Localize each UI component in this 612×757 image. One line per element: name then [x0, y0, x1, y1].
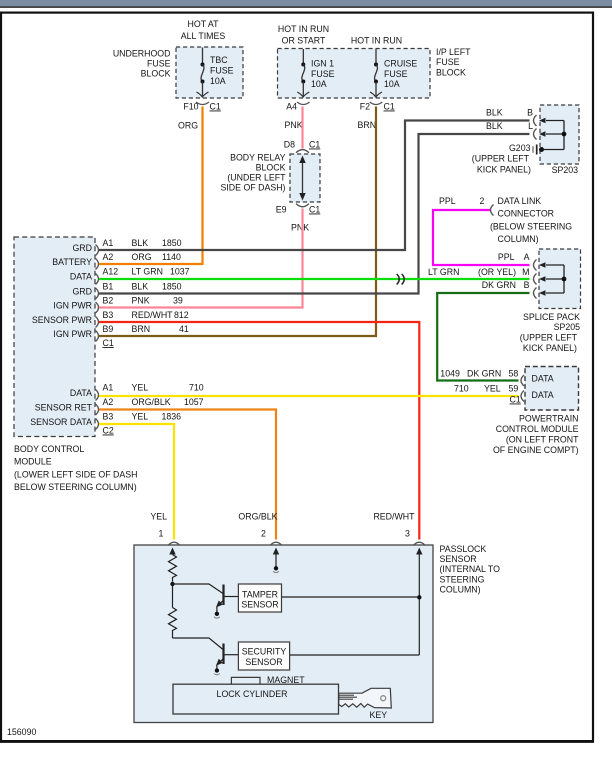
svg-text:PPL: PPL [439, 196, 456, 206]
svg-text:B: B [527, 108, 533, 118]
wire BLK 1850 B1 to SP203 L [99, 134, 530, 294]
svg-text:58: 58 [509, 369, 519, 379]
svg-text:(ON LEFT FRONT: (ON LEFT FRONT [506, 435, 579, 445]
transistor tamper [173, 584, 239, 612]
svg-text:710: 710 [189, 383, 204, 393]
svg-text:2: 2 [480, 196, 485, 206]
connector E9 C1 [276, 204, 321, 215]
svg-text:ORG: ORG [178, 121, 198, 131]
lock cylinder [173, 684, 339, 714]
node junction pin1 [170, 582, 174, 586]
svg-text:SENSOR: SENSOR [245, 657, 282, 667]
connector F10 C1 [183, 102, 221, 112]
svg-text:MAGNET: MAGNET [267, 675, 305, 685]
svg-text:C2: C2 [103, 426, 114, 436]
svg-text:LT GRN: LT GRN [428, 267, 459, 277]
body relay block [220, 153, 320, 203]
svg-text:BLK: BLK [486, 121, 503, 131]
fuse block: I/P left fuse block [278, 24, 472, 98]
svg-text:1140: 1140 [162, 252, 181, 262]
ground tamper emitter [214, 612, 220, 618]
svg-text:10A: 10A [210, 76, 226, 86]
svg-text:MODULE: MODULE [14, 457, 52, 467]
svg-text:A: A [524, 252, 530, 262]
svg-text:10A: 10A [384, 79, 400, 89]
svg-text:F2: F2 [360, 102, 370, 112]
security sensor box [238, 642, 289, 670]
wire ORG/BLK 1057 [99, 410, 276, 540]
svg-text:YEL: YEL [132, 412, 149, 422]
connector pin 2 ORG/BLK [238, 512, 282, 546]
svg-text:B2: B2 [103, 296, 114, 306]
svg-text:CRUISE: CRUISE [384, 59, 417, 69]
svg-text:YEL: YEL [150, 512, 167, 522]
connector pin 1 YEL [150, 512, 180, 546]
svg-text:SENSOR: SENSOR [440, 554, 477, 564]
connector A4 [286, 102, 309, 112]
svg-text:812: 812 [174, 310, 189, 320]
svg-text:SENSOR RET: SENSOR RET [35, 403, 93, 413]
svg-text:FUSE: FUSE [210, 66, 234, 76]
svg-text:G203: G203 [509, 143, 531, 153]
resistor lower [169, 608, 177, 639]
svg-text:TAMPER: TAMPER [242, 590, 278, 600]
svg-text:A12: A12 [103, 267, 119, 277]
svg-text:2: 2 [261, 529, 266, 539]
svg-text:CONNECTOR: CONNECTOR [498, 209, 555, 219]
svg-text:DATA: DATA [70, 388, 92, 398]
svg-text:SENSOR DATA: SENSOR DATA [30, 417, 92, 427]
wire BRN 41 [99, 107, 376, 337]
svg-text:CONTROL MODULE: CONTROL MODULE [496, 424, 579, 434]
svg-text:BLOCK: BLOCK [436, 68, 466, 78]
svg-text:YEL: YEL [132, 383, 149, 393]
svg-text:COLUMN): COLUMN) [498, 234, 539, 244]
svg-text:156090: 156090 [7, 727, 36, 737]
svg-text:BLK: BLK [486, 108, 503, 118]
passlock sensor box [134, 544, 500, 723]
wire PNK 39 lower [99, 209, 303, 308]
svg-text:A2: A2 [103, 397, 114, 407]
svg-text:A4: A4 [286, 102, 297, 112]
svg-text:BLOCK: BLOCK [141, 69, 171, 79]
BCM connector C1 pins [96, 238, 190, 348]
svg-text:B1: B1 [103, 282, 114, 292]
svg-text:RED/WHT: RED/WHT [373, 512, 415, 522]
pin 2 internal arrow and ground [273, 548, 279, 573]
svg-text:BELOW STEERING COLUMN): BELOW STEERING COLUMN) [14, 482, 137, 492]
svg-text:ORG/BLK: ORG/BLK [238, 512, 277, 522]
fuse IGN 1 10A [297, 49, 334, 98]
svg-text:OR START: OR START [282, 36, 326, 46]
svg-text:OF ENGINE COMPT): OF ENGINE COMPT) [493, 445, 579, 455]
svg-text:41: 41 [179, 324, 189, 334]
svg-text:(LOWER LEFT SIDE OF DASH: (LOWER LEFT SIDE OF DASH [14, 470, 138, 480]
wire PPL to data link connector [433, 210, 530, 265]
wire tamper to pin3 [282, 596, 420, 598]
transistor security [173, 638, 239, 669]
splice pack SP205 [428, 249, 581, 353]
key [339, 688, 392, 720]
wire RED/WHT 812 [99, 322, 419, 540]
svg-text:D8: D8 [284, 140, 295, 150]
splice pack SP203 [472, 105, 579, 175]
BCM connector C2 pins [96, 383, 204, 436]
svg-text:SP205: SP205 [554, 322, 581, 332]
connector D8 C1 [284, 140, 321, 153]
svg-text:C1: C1 [210, 102, 221, 112]
svg-text:BODY CONTROL: BODY CONTROL [14, 444, 84, 454]
data link connector [439, 196, 572, 244]
svg-text:DK GRN: DK GRN [467, 369, 501, 379]
svg-text:(OR YEL): (OR YEL) [478, 267, 516, 277]
svg-text:DATA: DATA [532, 390, 554, 400]
svg-text:(UPPER LEFT: (UPPER LEFT [520, 333, 578, 343]
svg-text:SENSOR PWR: SENSOR PWR [32, 315, 92, 325]
svg-text:POWERTRAIN: POWERTRAIN [519, 414, 578, 424]
svg-text:LOCK CYLINDER: LOCK CYLINDER [217, 689, 288, 699]
svg-text:FUSE: FUSE [147, 59, 171, 69]
wire break symbol on LT GRN [397, 274, 405, 285]
svg-text:DATA: DATA [70, 272, 92, 282]
svg-text:IGN PWR: IGN PWR [53, 329, 92, 339]
svg-text:(UPPER LEFT: (UPPER LEFT [472, 154, 530, 164]
svg-text:ALL TIMES: ALL TIMES [181, 31, 226, 41]
svg-text:A1: A1 [103, 238, 114, 248]
svg-text:1: 1 [159, 529, 164, 539]
svg-text:(INTERNAL TO: (INTERNAL TO [440, 564, 501, 574]
wire LT GRN 1037 [99, 278, 530, 280]
svg-text:1057: 1057 [184, 397, 204, 407]
svg-text:SIDE OF DASH): SIDE OF DASH) [220, 183, 285, 193]
svg-text:B3: B3 [103, 310, 114, 320]
svg-text:DATA LINK: DATA LINK [498, 196, 542, 206]
svg-text:KICK PANEL): KICK PANEL) [477, 164, 531, 174]
connector F2 C1 [360, 102, 395, 112]
svg-text:B9: B9 [103, 324, 114, 334]
svg-text:ORG: ORG [132, 252, 152, 262]
svg-text:710: 710 [454, 384, 469, 394]
svg-text:1037: 1037 [170, 267, 190, 277]
svg-text:GRD: GRD [72, 287, 92, 297]
svg-text:C1: C1 [309, 205, 320, 215]
svg-text:C1: C1 [384, 102, 395, 112]
svg-text:FUSE: FUSE [436, 57, 460, 67]
fuse CRUISE 10A [370, 49, 417, 98]
wire ORG 1140 [99, 107, 203, 265]
svg-text:M: M [522, 267, 529, 277]
svg-text:I/P LEFT: I/P LEFT [436, 47, 471, 57]
svg-text:BODY RELAY: BODY RELAY [230, 153, 286, 163]
svg-text:HOT AT: HOT AT [188, 19, 220, 29]
ground G203 [509, 143, 564, 155]
svg-text:1850: 1850 [162, 282, 182, 292]
svg-text:PNK: PNK [285, 120, 303, 130]
svg-text:PPL: PPL [498, 252, 515, 262]
svg-text:DATA: DATA [532, 374, 554, 384]
svg-text:L: L [528, 121, 533, 131]
wire YEL 1836 [99, 424, 174, 540]
wire DK GRN 1049 [437, 293, 529, 381]
fuse block: underhood fuse block [113, 19, 243, 98]
svg-text:HOT IN RUN: HOT IN RUN [278, 24, 329, 34]
pin 1 internal arrow and resistor chain [169, 548, 175, 555]
svg-text:BLK: BLK [132, 238, 149, 248]
wire PNK 39 upper [301, 107, 303, 149]
svg-text:IGN PWR: IGN PWR [53, 301, 92, 311]
wire YEL 710 [99, 395, 519, 397]
svg-text:(BELOW STEERING: (BELOW STEERING [490, 222, 572, 232]
svg-text:HOT IN RUN: HOT IN RUN [351, 36, 402, 46]
svg-text:UNDERHOOD: UNDERHOOD [113, 49, 171, 59]
svg-text:KICK PANEL): KICK PANEL) [523, 343, 577, 353]
svg-text:1836: 1836 [162, 412, 182, 422]
svg-text:C1: C1 [103, 338, 114, 348]
svg-text:59: 59 [509, 384, 519, 394]
svg-text:SPLICE PACK: SPLICE PACK [523, 312, 580, 322]
svg-text:BATTERY: BATTERY [52, 257, 92, 267]
svg-text:A2: A2 [103, 252, 114, 262]
svg-text:STEERING: STEERING [440, 575, 485, 585]
svg-text:GRD: GRD [72, 243, 92, 253]
svg-text:PNK: PNK [132, 296, 150, 306]
svg-text:C1: C1 [309, 140, 320, 150]
svg-text:39: 39 [173, 296, 183, 306]
svg-text:DK GRN: DK GRN [482, 280, 516, 290]
svg-text:YEL: YEL [484, 384, 501, 394]
svg-text:TBC: TBC [210, 55, 228, 65]
ground security emitter [214, 668, 220, 674]
svg-text:COLUMN): COLUMN) [440, 585, 481, 595]
fuse TBC 10A [197, 48, 234, 98]
svg-text:B: B [524, 280, 530, 290]
svg-text:PNK: PNK [291, 223, 309, 233]
svg-text:C1: C1 [510, 395, 521, 405]
body control module [14, 237, 138, 492]
svg-text:SP203: SP203 [552, 165, 579, 175]
svg-text:BLOCK: BLOCK [256, 163, 286, 173]
svg-text:BLK: BLK [132, 282, 149, 292]
wire BLK 1850 A1 to SP203 B [99, 121, 530, 251]
resistor upper [169, 555, 177, 582]
svg-text:E9: E9 [276, 205, 287, 215]
svg-text:BRN: BRN [132, 324, 151, 334]
pin 3 internal arrow and wire [290, 548, 423, 656]
svg-text:RED/WHT: RED/WHT [132, 310, 174, 320]
svg-text:ORG/BLK: ORG/BLK [132, 397, 171, 407]
svg-text:(UNDER LEFT: (UNDER LEFT [227, 173, 286, 183]
svg-text:B3: B3 [103, 412, 114, 422]
svg-text:KEY: KEY [370, 710, 388, 720]
svg-text:LT GRN: LT GRN [132, 267, 163, 277]
svg-text:1850: 1850 [162, 238, 182, 248]
wire to resistor lower [172, 586, 174, 608]
svg-text:SECURITY: SECURITY [242, 647, 287, 657]
magnet tab [231, 675, 305, 685]
svg-text:F10: F10 [183, 102, 198, 112]
svg-text:A1: A1 [103, 383, 114, 393]
svg-text:FUSE: FUSE [384, 69, 408, 79]
svg-text:IGN 1: IGN 1 [311, 59, 334, 69]
svg-text:BRN: BRN [358, 120, 377, 130]
svg-text:FUSE: FUSE [311, 69, 335, 79]
tamper sensor box [238, 584, 281, 612]
svg-text:SENSOR: SENSOR [241, 600, 278, 610]
connector pin 3 RED/WHT [373, 512, 425, 546]
svg-text:1049: 1049 [440, 369, 460, 379]
svg-text:10A: 10A [311, 79, 327, 89]
svg-text:3: 3 [405, 529, 410, 539]
powertrain control module [440, 367, 579, 456]
svg-text:PASSLOCK: PASSLOCK [440, 544, 487, 554]
